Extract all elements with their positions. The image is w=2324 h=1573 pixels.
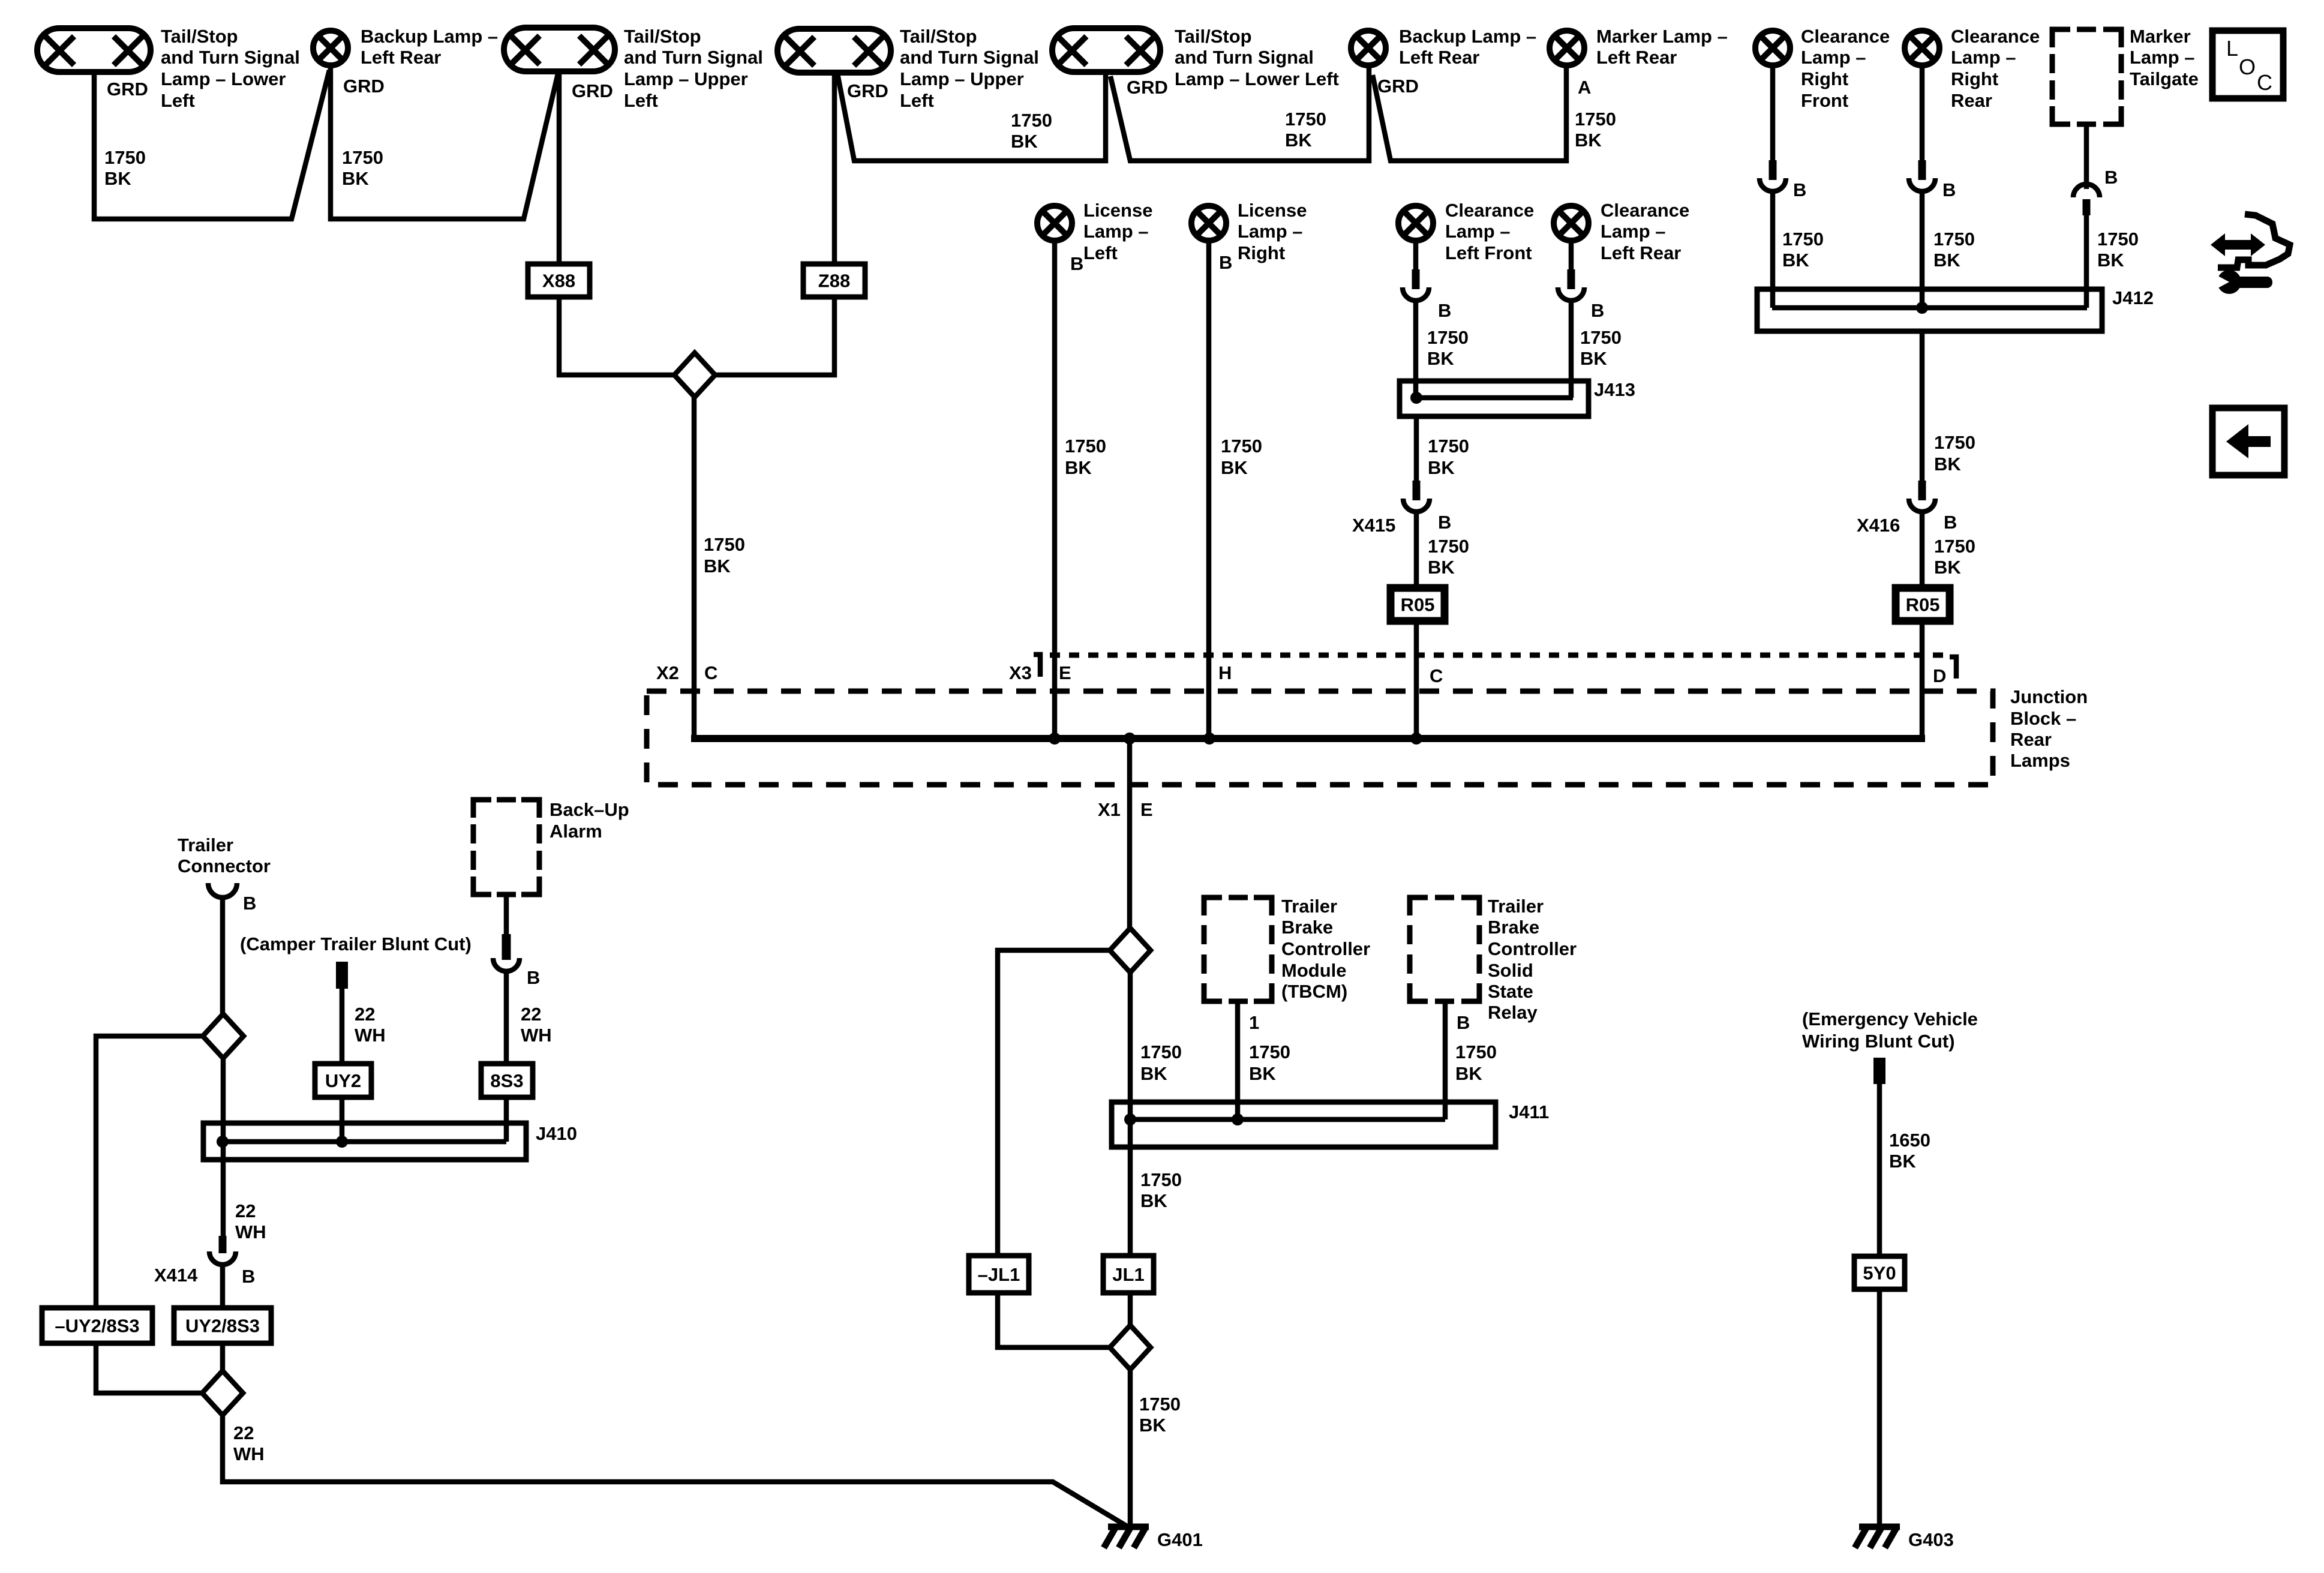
svg-text:Lamp –: Lamp –	[1601, 221, 1666, 242]
svg-text:Left: Left	[161, 90, 195, 111]
svg-text:O: O	[2239, 55, 2256, 79]
svg-text:–JL1: –JL1	[978, 1264, 1020, 1285]
svg-text:WH: WH	[233, 1443, 265, 1464]
svg-text:B: B	[2104, 167, 2118, 188]
wire: trailer connector main down through J410	[223, 1058, 266, 1242]
svg-text:Lamp – Lower Left: Lamp – Lower Left	[1175, 68, 1339, 89]
svg-text:1750: 1750	[1065, 436, 1106, 457]
svg-text:1: 1	[1249, 1012, 1259, 1033]
wire + inline connector X88	[528, 70, 675, 375]
ground G401	[1104, 1527, 1203, 1550]
svg-text:Backup Lamp –: Backup Lamp –	[1399, 26, 1536, 47]
svg-text:Right: Right	[1238, 242, 1285, 263]
svg-text:B: B	[1438, 300, 1451, 321]
wire: S3 to ground G401	[1130, 1370, 1181, 1526]
svg-text:1750: 1750	[1934, 536, 1975, 557]
svg-text:G403: G403	[1908, 1529, 1954, 1550]
svg-text:Tail/Stop: Tail/Stop	[900, 26, 977, 47]
svg-text:Marker Lamp –: Marker Lamp –	[1596, 26, 1728, 47]
svg-text:BK: BK	[1782, 250, 1809, 271]
wire: 1750 BK stadium5 to backup2	[1110, 67, 1369, 161]
wire: S4 branch through -UY2/8S3	[96, 1036, 203, 1308]
lamp: License Lamp - Right	[1191, 200, 1307, 739]
svg-text:B: B	[1591, 300, 1604, 321]
svg-text:Lamp –: Lamp –	[1238, 221, 1303, 242]
svg-text:BK: BK	[1580, 348, 1607, 369]
svg-text:1750: 1750	[1427, 327, 1469, 348]
svg-text:BK: BK	[2097, 250, 2124, 271]
svg-text:C: C	[1430, 665, 1443, 686]
svg-text:BK: BK	[1428, 457, 1455, 478]
svg-text:Lamp –: Lamp –	[1951, 47, 2016, 68]
svg-text:Right: Right	[1951, 68, 1998, 89]
svg-text:Trailer: Trailer	[1281, 896, 1337, 917]
svg-text:Lamp – Upper: Lamp – Upper	[900, 68, 1024, 89]
svg-text:and Turn Signal: and Turn Signal	[900, 47, 1039, 68]
junction block J413	[1400, 379, 1635, 416]
svg-text:BK: BK	[1139, 1415, 1166, 1436]
svg-text:Left Rear: Left Rear	[1399, 47, 1479, 68]
svg-text:1750: 1750	[1934, 432, 1975, 453]
icon: hand with double arrow and wrench	[2211, 214, 2290, 294]
wire: 1750 BK lamp2 to stadium3	[331, 67, 558, 219]
connector bracket X3	[1034, 655, 1040, 677]
svg-text:WH: WH	[521, 1025, 552, 1046]
svg-text:–UY2/8S3: –UY2/8S3	[55, 1316, 139, 1337]
svg-text:BK: BK	[1221, 457, 1248, 478]
svg-text:1750: 1750	[1221, 436, 1262, 457]
svg-text:R05: R05	[1401, 595, 1435, 616]
svg-text:BK: BK	[1455, 1063, 1482, 1084]
svg-text:Left Rear: Left Rear	[1601, 242, 1681, 263]
option box -JL1	[969, 1256, 1110, 1347]
svg-text:BK: BK	[704, 556, 731, 577]
lamp: Marker Lamp - Left Rear	[1550, 26, 1728, 98]
svg-text:BK: BK	[1065, 457, 1092, 478]
svg-text:1750: 1750	[1580, 327, 1622, 348]
wire: S2 to -JL1	[998, 950, 1110, 1256]
svg-text:License: License	[1083, 200, 1152, 221]
svg-text:J412: J412	[2112, 287, 2154, 308]
svg-text:1750: 1750	[1933, 229, 1975, 250]
svg-text:L: L	[2226, 36, 2238, 61]
(Emergency Vehicle Wiring Blunt Cut) + 5Y0 to G403	[1802, 1008, 1978, 1526]
svg-text:C: C	[2257, 70, 2272, 95]
svg-text:BK: BK	[104, 168, 131, 189]
svg-text:and Turn Signal: and Turn Signal	[1175, 47, 1314, 68]
lamp: Clearance Lamp - Right Rear	[1905, 26, 2040, 308]
svg-text:(TBCM): (TBCM)	[1281, 981, 1347, 1002]
svg-text:Wiring Blunt Cut): Wiring Blunt Cut)	[1802, 1031, 1955, 1052]
svg-text:A: A	[1578, 77, 1591, 98]
Trailer Connector	[178, 834, 271, 1014]
junction block - rear lamps dashed outline	[647, 655, 2088, 785]
option box -UY2/8S3	[42, 1308, 202, 1393]
svg-text:Module: Module	[1281, 960, 1347, 981]
svg-text:Lamp –: Lamp –	[1445, 221, 1511, 242]
svg-text:BK: BK	[1575, 130, 1602, 151]
svg-text:GRD: GRD	[572, 80, 613, 101]
ground G403	[1855, 1527, 1954, 1550]
lamp: Tail/Stop and Turn Signal Lamp - Lower Left (stadium)	[37, 26, 300, 111]
splice diamond S5	[202, 1371, 243, 1415]
svg-text:B: B	[1793, 179, 1806, 200]
svg-text:Clearance: Clearance	[1601, 200, 1689, 221]
svg-text:1750: 1750	[1139, 1394, 1181, 1415]
svg-text:22: 22	[233, 1422, 254, 1443]
svg-text:BK: BK	[1934, 454, 1961, 475]
svg-text:1750: 1750	[1285, 109, 1326, 130]
svg-text:5Y0: 5Y0	[1863, 1263, 1896, 1284]
svg-text:UY2/8S3: UY2/8S3	[185, 1316, 260, 1337]
connector bracket D (right)	[1950, 657, 1956, 679]
wire: 1750 BK lamp1 to lamp2	[94, 70, 329, 219]
svg-text:Alarm: Alarm	[550, 821, 602, 842]
svg-text:Z88: Z88	[818, 271, 850, 292]
wire: splice S1 down to junction block bus	[694, 397, 745, 742]
svg-text:GRD: GRD	[107, 79, 148, 100]
svg-text:X2: X2	[656, 662, 679, 683]
svg-text:E: E	[1059, 662, 1071, 683]
svg-text:BK: BK	[1889, 1151, 1916, 1172]
svg-text:BK: BK	[1933, 250, 1960, 271]
svg-text:1750: 1750	[104, 147, 146, 168]
splice diamond S3	[1110, 1325, 1151, 1370]
svg-text:BK: BK	[1140, 1190, 1167, 1211]
svg-text:1750: 1750	[1140, 1169, 1182, 1190]
svg-text:and Turn Signal: and Turn Signal	[161, 47, 300, 68]
svg-text:Backup Lamp –: Backup Lamp –	[361, 26, 498, 47]
(Camper Trailer Blunt Cut) + UY2	[240, 933, 472, 1142]
svg-text:B: B	[527, 967, 540, 988]
svg-text:Tail/Stop: Tail/Stop	[624, 26, 701, 47]
lamp: Clearance Lamp - Left Front	[1398, 200, 1534, 398]
svg-text:Clearance: Clearance	[1801, 26, 1890, 47]
svg-text:Brake: Brake	[1488, 917, 1539, 938]
svg-text:BK: BK	[1140, 1063, 1167, 1084]
Trailer Brake Controller Solid State Relay dashed box	[1410, 896, 1577, 1119]
Trailer Brake Controller Module (TBCM) dashed box	[1204, 896, 1370, 1119]
svg-text:BK: BK	[1285, 130, 1312, 151]
svg-text:22: 22	[235, 1200, 256, 1221]
svg-text:1750: 1750	[1428, 536, 1469, 557]
svg-text:Left Rear: Left Rear	[1596, 47, 1677, 68]
svg-text:Controller: Controller	[1488, 938, 1577, 959]
splice diamond S2	[1110, 928, 1151, 972]
svg-text:and Turn Signal: and Turn Signal	[624, 47, 763, 68]
svg-text:1750: 1750	[1140, 1041, 1182, 1062]
svg-text:E: E	[1140, 799, 1153, 820]
svg-text:State: State	[1488, 981, 1533, 1002]
svg-text:Junction: Junction	[2010, 686, 2088, 707]
svg-text:Lamp – Lower: Lamp – Lower	[161, 68, 286, 89]
svg-text:B: B	[243, 893, 256, 914]
svg-text:Lamp –: Lamp –	[2130, 47, 2195, 68]
lamp: Backup Lamp - Left Rear (circle)	[313, 26, 498, 97]
wire: S5 down and across to ground G401	[223, 1415, 1126, 1526]
svg-text:Left Rear: Left Rear	[361, 47, 441, 68]
svg-text:GRD: GRD	[343, 76, 385, 97]
svg-text:Tail/Stop: Tail/Stop	[161, 26, 238, 47]
svg-text:J410: J410	[536, 1123, 577, 1144]
labels 1750 BK for TBCM and relay wires	[1249, 1041, 1497, 1084]
wire: 1750 BK stadium4 to stadium5	[837, 71, 1106, 161]
svg-text:Right: Right	[1801, 68, 1848, 89]
svg-text:J413: J413	[1594, 379, 1635, 400]
svg-text:X416: X416	[1857, 515, 1900, 536]
svg-text:B: B	[1942, 179, 1956, 200]
lamp: Tail/Stop and Turn Signal Lamp - Upper Left (stadium3)	[504, 26, 763, 111]
svg-text:B: B	[1438, 512, 1451, 533]
svg-text:BK: BK	[1427, 348, 1454, 369]
svg-text:BK: BK	[1934, 557, 1961, 578]
svg-text:Connector: Connector	[178, 855, 271, 876]
svg-text:R05: R05	[1906, 595, 1940, 616]
svg-text:Brake: Brake	[1281, 917, 1333, 938]
svg-text:Left: Left	[900, 90, 934, 111]
svg-text:X415: X415	[1352, 515, 1395, 536]
LOC box (top right)	[2212, 31, 2283, 98]
svg-text:Lamp – Upper: Lamp – Upper	[624, 68, 748, 89]
Marker Lamp - Tailgate (dashed outline component)	[2052, 26, 2199, 308]
svg-text:X414: X414	[154, 1265, 198, 1286]
svg-text:1650: 1650	[1889, 1130, 1930, 1151]
svg-text:1750: 1750	[1455, 1041, 1497, 1062]
svg-text:X88: X88	[542, 271, 575, 292]
bus inside junction block	[691, 733, 1925, 745]
svg-text:1750: 1750	[2097, 229, 2139, 250]
svg-text:X3: X3	[1009, 662, 1032, 683]
lamp: License Lamp - Left	[1037, 200, 1152, 739]
lamp: Backup Lamp - Left Rear (circle 2)	[1351, 26, 1536, 97]
svg-text:(Camper Trailer Blunt Cut): (Camper Trailer Blunt Cut)	[240, 933, 472, 954]
svg-text:B: B	[1944, 512, 1957, 533]
svg-text:Trailer: Trailer	[178, 834, 233, 855]
svg-text:1750: 1750	[1782, 229, 1824, 250]
svg-text:Clearance: Clearance	[1445, 200, 1534, 221]
lamp: Tail/Stop and Turn Signal Lamp - Upper Left (stadium4)	[777, 26, 1039, 111]
svg-text:Lamp –: Lamp –	[1801, 47, 1866, 68]
svg-text:Solid: Solid	[1488, 960, 1533, 981]
svg-text:B: B	[242, 1266, 255, 1287]
svg-text:License: License	[1238, 200, 1307, 221]
junction block J410	[203, 1123, 577, 1160]
svg-text:Front: Front	[1801, 90, 1848, 111]
svg-text:Lamps: Lamps	[2010, 750, 2070, 771]
svg-text:Lamp –: Lamp –	[1083, 221, 1149, 242]
wire: S2 down through J411 to JL1	[1130, 972, 1182, 1256]
svg-text:G401: G401	[1157, 1529, 1203, 1550]
left arrow box (bottom right nav)	[2212, 408, 2284, 475]
svg-text:Rear: Rear	[2010, 729, 2052, 750]
wire: 1750 BK backup2 to marker	[1373, 67, 1616, 161]
svg-text:GRD: GRD	[1127, 77, 1168, 98]
junction block J412 (clearance/marker lamps)	[1757, 287, 2154, 331]
svg-text:B: B	[1219, 252, 1232, 273]
lamp: Tail/Stop and Turn Signal Lamp - Lower Left (stadium5)	[1052, 26, 1339, 98]
svg-text:UY2: UY2	[325, 1070, 361, 1091]
svg-text:WH: WH	[355, 1025, 386, 1046]
svg-text:C: C	[704, 662, 717, 683]
svg-text:Trailer: Trailer	[1488, 896, 1544, 917]
wire + connector X415 + R05	[1352, 416, 1469, 739]
svg-text:GRD: GRD	[1377, 76, 1419, 97]
connector X414	[154, 1236, 255, 1308]
svg-text:BK: BK	[1011, 131, 1038, 152]
svg-text:Back–Up: Back–Up	[550, 799, 629, 820]
svg-text:22: 22	[355, 1004, 375, 1025]
svg-text:Marker: Marker	[2130, 26, 2191, 47]
svg-text:Left: Left	[1083, 242, 1118, 263]
svg-text:B: B	[1070, 253, 1083, 274]
junction block J411	[1112, 1101, 1549, 1147]
svg-text:22: 22	[521, 1004, 541, 1025]
wire + inline connector Z88	[714, 71, 865, 375]
svg-text:Relay: Relay	[1488, 1002, 1538, 1023]
svg-text:(Emergency Vehicle: (Emergency Vehicle	[1802, 1008, 1978, 1029]
svg-text:Left Front: Left Front	[1445, 242, 1532, 263]
svg-text:Rear: Rear	[1951, 90, 1992, 111]
svg-text:1750: 1750	[1428, 436, 1469, 457]
pin labels on junction block	[656, 662, 1232, 683]
svg-text:H: H	[1218, 662, 1232, 683]
option box JL1	[1103, 1256, 1154, 1325]
wire + connector X416 + R05	[1857, 331, 1975, 742]
svg-text:Tail/Stop: Tail/Stop	[1175, 26, 1252, 47]
svg-text:BK: BK	[342, 168, 369, 189]
svg-text:B: B	[1457, 1012, 1470, 1033]
splice diamond S4	[203, 1014, 244, 1058]
Back-Up Alarm dashed box	[473, 799, 629, 1142]
svg-text:BK: BK	[1249, 1063, 1276, 1084]
svg-text:D: D	[1933, 665, 1946, 686]
svg-text:1750: 1750	[342, 147, 383, 168]
svg-text:X1: X1	[1098, 799, 1121, 820]
lamp: Clearance Lamp - Right Front	[1755, 26, 1890, 308]
svg-text:GRD: GRD	[847, 80, 888, 101]
svg-text:Controller: Controller	[1281, 938, 1370, 959]
svg-text:Left: Left	[624, 90, 658, 111]
X1 tap labels	[1098, 739, 1153, 928]
svg-text:Block –: Block –	[2010, 708, 2076, 729]
svg-text:8S3: 8S3	[490, 1070, 523, 1091]
svg-text:1750: 1750	[1249, 1041, 1290, 1062]
svg-text:1750: 1750	[1575, 109, 1616, 130]
splice diamond S1	[674, 353, 715, 397]
svg-text:BK: BK	[1428, 557, 1455, 578]
svg-text:Tailgate: Tailgate	[2130, 68, 2199, 89]
svg-text:WH: WH	[235, 1221, 266, 1242]
lamp: Clearance Lamp - Left Rear	[1554, 200, 1689, 398]
svg-text:Clearance: Clearance	[1951, 26, 2040, 47]
option box UY2/8S3	[174, 1308, 271, 1371]
svg-text:1750: 1750	[1011, 110, 1052, 131]
svg-text:JL1: JL1	[1112, 1264, 1144, 1285]
svg-text:1750: 1750	[704, 534, 745, 555]
svg-text:J411: J411	[1509, 1101, 1549, 1122]
